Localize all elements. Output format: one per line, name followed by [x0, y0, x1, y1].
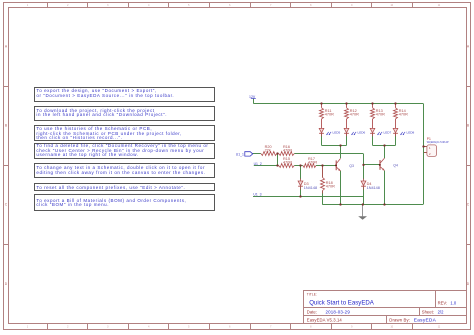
svg-text:A: A	[467, 45, 470, 49]
svg-text:470R: 470R	[326, 185, 335, 189]
svg-text:8: 8	[310, 5, 312, 7]
svg-text:4: 4	[148, 5, 150, 7]
svg-text:470R: 470R	[376, 113, 385, 117]
svg-text:LED5: LED5	[333, 130, 341, 134]
svg-text:LED6: LED6	[358, 130, 366, 134]
svg-text:8: 8	[310, 326, 312, 328]
svg-text:470R: 470R	[399, 113, 408, 117]
svg-text:A: A	[5, 45, 8, 49]
svg-text:11: 11	[438, 326, 441, 328]
svg-text:Q4: Q4	[393, 163, 398, 167]
svg-text:EasyEDA: EasyEDA	[414, 318, 437, 324]
svg-text:REV:: REV:	[438, 301, 448, 306]
svg-text:C: C	[5, 203, 8, 207]
svg-text:2: 2	[429, 152, 431, 156]
svg-text:1.0: 1.0	[450, 301, 456, 306]
svg-text:10: 10	[391, 5, 394, 7]
svg-text:U1_3: U1_3	[253, 193, 261, 197]
svg-text:D: D	[467, 282, 470, 286]
svg-text:9: 9	[351, 326, 353, 328]
svg-text:2: 2	[67, 5, 69, 7]
svg-text:B: B	[467, 124, 470, 128]
svg-text:2: 2	[67, 326, 69, 328]
svg-text:Q3: Q3	[349, 164, 354, 168]
svg-text:1N4148: 1N4148	[367, 186, 380, 190]
svg-text:11: 11	[438, 5, 441, 7]
svg-text:2018-03-29: 2018-03-29	[326, 309, 351, 314]
svg-text:U1_2: U1_2	[254, 162, 262, 166]
svg-text:470R: 470R	[308, 161, 317, 165]
svg-text:WJ(EDG)/C-5.08-2P: WJ(EDG)/C-5.08-2P	[427, 141, 449, 144]
svg-text:LED8: LED8	[407, 130, 415, 134]
svg-text:Quick Start to EasyEDA: Quick Start to EasyEDA	[309, 299, 375, 306]
svg-text:TITLE:: TITLE:	[307, 293, 317, 297]
svg-text:3: 3	[107, 326, 109, 328]
svg-text:470R: 470R	[283, 161, 292, 165]
svg-text:7: 7	[270, 5, 272, 7]
svg-text:5: 5	[188, 5, 190, 7]
svg-text:6: 6	[229, 326, 231, 328]
svg-text:10: 10	[391, 326, 394, 328]
svg-text:Drawn By:: Drawn By:	[389, 318, 410, 323]
svg-text:1: 1	[27, 326, 29, 328]
svg-text:EasyEDA V5.3.14: EasyEDA V5.3.14	[307, 318, 343, 323]
svg-text:D: D	[5, 282, 8, 286]
svg-text:LED7: LED7	[384, 130, 392, 134]
svg-text:1: 1	[27, 5, 29, 7]
svg-text:470R: 470R	[283, 149, 292, 153]
svg-text:1N4148: 1N4148	[304, 186, 317, 190]
svg-text:Date:: Date:	[307, 309, 317, 314]
svg-text:22k: 22k	[265, 149, 271, 153]
svg-text:B: B	[5, 124, 8, 128]
svg-text:470R: 470R	[350, 113, 359, 117]
svg-text:470R: 470R	[325, 113, 334, 117]
svg-text:7: 7	[270, 326, 272, 328]
svg-text:4: 4	[148, 326, 150, 328]
svg-text:6: 6	[229, 5, 231, 7]
svg-text:Sheet:: Sheet:	[422, 309, 434, 314]
svg-text:U1_1: U1_1	[236, 152, 244, 156]
svg-text:2/2: 2/2	[438, 309, 444, 314]
svg-text:9: 9	[351, 5, 353, 7]
svg-text:5: 5	[188, 326, 190, 328]
svg-text:1: 1	[429, 146, 431, 150]
svg-text:C: C	[467, 203, 470, 207]
svg-text:3: 3	[107, 5, 109, 7]
